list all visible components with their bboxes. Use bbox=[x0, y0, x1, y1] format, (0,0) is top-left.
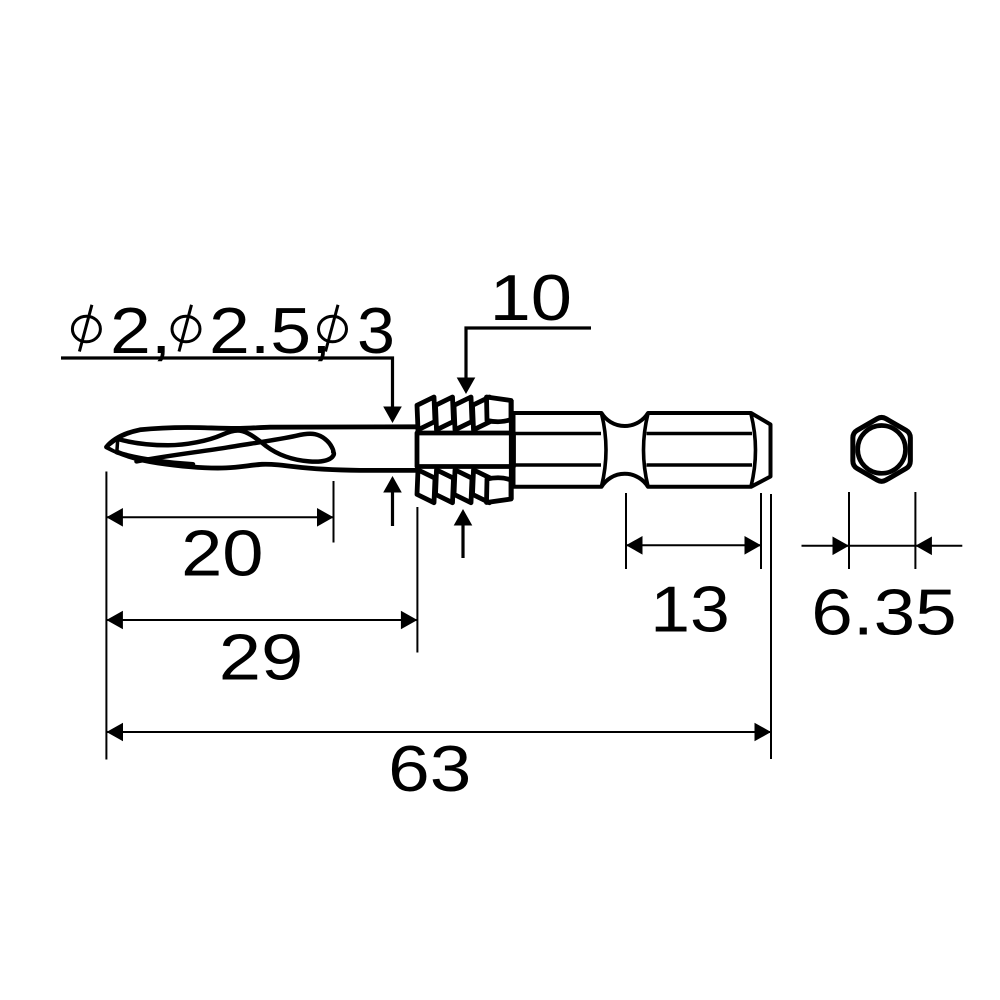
extension line 29 right bbox=[416, 507, 418, 653]
arrowhead 13 right bbox=[745, 536, 762, 555]
arrowheads bbox=[106, 378, 932, 742]
drill flute spiral S1 (arch and leaf bottom) bbox=[118, 430, 334, 461]
arrowhead 10 down bbox=[457, 378, 476, 395]
waist right tangent arc bbox=[644, 414, 649, 487]
arrowhead phi up bbox=[383, 476, 402, 493]
arrowhead 29 right bbox=[401, 611, 418, 630]
hex facet line upper right bbox=[647, 432, 753, 436]
knurl top fin 4 bbox=[473, 397, 491, 430]
arrow up below shank (phi) bbox=[391, 492, 394, 526]
arrowhead 20 right bbox=[317, 508, 334, 527]
leader line for 10 label bbox=[466, 328, 591, 380]
arrowhead 29 left bbox=[106, 611, 123, 630]
knurl bottom fin 3 bbox=[454, 470, 472, 503]
leader line for phi label bbox=[61, 358, 393, 409]
knurl bottom fin 4 bbox=[473, 470, 491, 503]
svg-text:20: 20 bbox=[181, 517, 263, 590]
arrowhead 13 left bbox=[626, 536, 643, 555]
extension line left (x106) bbox=[105, 472, 107, 760]
extension line 13 left bbox=[625, 493, 627, 569]
arrowhead 6.35 left (outside, pointing right) bbox=[833, 537, 850, 556]
knurl right edge bbox=[509, 400, 514, 500]
svg-text:3: 3 bbox=[357, 295, 395, 367]
svg-text:10: 10 bbox=[490, 261, 572, 334]
arrow up below knurl (10) bbox=[461, 524, 464, 558]
svg-text:29: 29 bbox=[219, 621, 304, 694]
extension line 13 right bbox=[760, 493, 762, 569]
arrowhead 20 left bbox=[106, 508, 123, 527]
dimension line 6.35 with outside tails bbox=[802, 545, 963, 547]
svg-text:6.35: 6.35 bbox=[811, 576, 956, 648]
hex facet line lower left bbox=[514, 463, 602, 467]
hexagon cross-section bbox=[853, 417, 911, 481]
phi symbol 2 bbox=[172, 305, 200, 352]
dimension line 20 bbox=[106, 516, 333, 518]
knurl top fin 1 bbox=[417, 397, 435, 430]
extension line 20 right bbox=[333, 481, 335, 543]
waist left tangent arc bbox=[602, 414, 607, 487]
dimension line 29 bbox=[106, 619, 417, 621]
svg-text:2,: 2, bbox=[110, 294, 171, 367]
knurl bottom fin 2 bbox=[436, 470, 454, 503]
extension line 6.35 left bbox=[848, 492, 850, 569]
arrowhead 63 right bbox=[755, 723, 772, 742]
dimension thin lines bbox=[106, 472, 962, 760]
svg-text:2.5,: 2.5, bbox=[209, 294, 332, 367]
arrowhead 6.35 right (outside, pointing left) bbox=[915, 537, 932, 556]
knurl top fin 3 bbox=[454, 397, 472, 430]
knurl body band bbox=[417, 433, 514, 467]
arrowhead 10 up bbox=[454, 509, 473, 526]
hex facet line upper left bbox=[514, 432, 602, 436]
dimension line 13 bbox=[626, 544, 761, 546]
phi symbol 3 bbox=[319, 305, 347, 352]
svg-text:63: 63 bbox=[388, 732, 471, 804]
drill flute lip line bbox=[117, 452, 193, 464]
extension line 63 right bbox=[770, 494, 772, 759]
knurl top right wide face bbox=[487, 397, 512, 422]
shank end tangent arc bbox=[751, 414, 756, 487]
hex facet line lower right bbox=[647, 463, 753, 467]
knurl top fin 2 bbox=[436, 397, 454, 430]
hex shank body with waist groove and chamfered end bbox=[514, 413, 771, 487]
hexagon inscribed circle bbox=[858, 426, 906, 474]
drill bit body outline bbox=[107, 427, 419, 471]
arrowhead 63 left bbox=[107, 723, 124, 742]
extension line 6.35 right bbox=[914, 492, 916, 569]
drill chisel tip bbox=[107, 438, 118, 452]
knurl bottom fin 1 bbox=[417, 470, 435, 503]
dimension line 63 bbox=[107, 731, 772, 733]
arrowhead phi down bbox=[383, 407, 402, 424]
drill flute spiral S2 (lower helix and leaf top) bbox=[137, 434, 334, 462]
phi symbol 1 bbox=[72, 305, 100, 352]
svg-text:13: 13 bbox=[650, 573, 730, 645]
knurl bottom right wide face bbox=[487, 478, 512, 503]
knurl stopper group bbox=[417, 397, 514, 503]
